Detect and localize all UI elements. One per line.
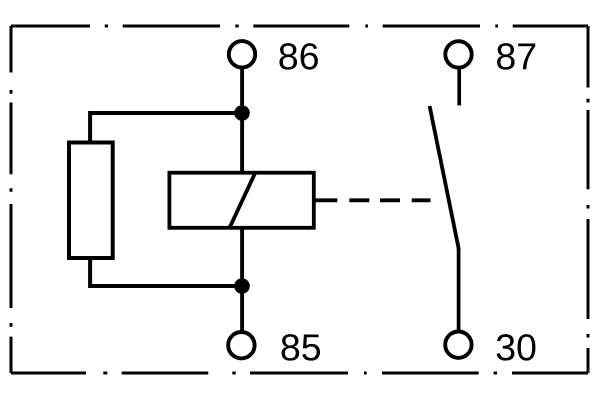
wire 86 down to coil [240,68,244,172]
wire bottom horizontal + resistor bottom stub [90,258,242,287]
label 30 [497,334,536,361]
border frame left edge (dash-dot) [10,26,13,373]
node junction bottom [234,278,250,294]
resistor R1 [69,143,113,259]
coil armature stub [316,198,338,202]
wire blade to 30 [457,248,461,331]
label 86 [279,43,317,70]
node junction top [234,105,250,121]
terminal 30 circle [445,332,471,358]
terminal 85 circle [228,332,254,358]
actuator dashed link [349,198,430,202]
terminal 87 circle [445,41,471,67]
label 85 [282,334,321,361]
wire 87 stub [457,69,461,105]
wire top horizontal + resistor top stub [90,113,242,141]
terminal 86 circle [229,41,255,67]
border frame top edge (dash-dot) [11,25,588,28]
label 87 [497,43,535,70]
border frame bottom edge (dash-dot) [11,372,588,375]
border frame right edge (dash-dot) [587,26,590,373]
switch blade [430,106,459,249]
relay coil K1 [169,173,313,228]
coil diagonal stroke [230,173,256,228]
wire coil down to 85 [240,229,244,332]
